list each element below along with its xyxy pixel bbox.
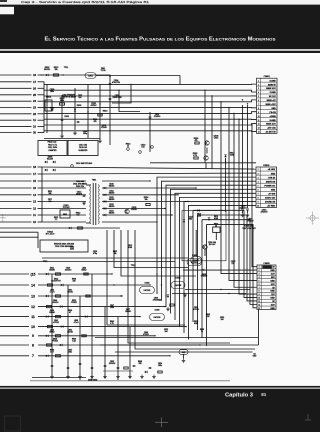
svg-text:470/16: 470/16	[193, 309, 199, 311]
svg-text:7: 7	[259, 287, 260, 289]
svg-text:SB340: SB340	[125, 311, 130, 313]
svg-text:100n: 100n	[158, 365, 162, 367]
svg-text:4148: 4148	[230, 155, 234, 157]
svg-text:+B 140V: +B 140V	[268, 168, 276, 171]
svg-text:+9V SW: +9V SW	[268, 194, 275, 196]
svg-text:222: 222	[231, 263, 234, 265]
svg-text:SB340: SB340	[49, 270, 54, 272]
svg-text:104: 104	[141, 147, 144, 149]
svg-text:MAIN +12V: MAIN +12V	[266, 103, 277, 106]
svg-text:4: 4	[258, 181, 259, 183]
svg-text:9: 9	[258, 112, 259, 114]
svg-text:CN801: CN801	[264, 76, 271, 78]
svg-text:12: 12	[258, 304, 260, 306]
svg-text:BEAD: BEAD	[82, 269, 88, 272]
svg-text:13: 13	[258, 128, 260, 130]
svg-text:26: 26	[33, 86, 37, 90]
svg-text:BA159: BA159	[47, 158, 53, 161]
svg-text:KA7812: KA7812	[191, 261, 198, 264]
svg-text:KA7805: KA7805	[144, 289, 151, 292]
svg-text:470/16V: 470/16V	[246, 221, 254, 223]
svg-text:100n: 100n	[50, 91, 54, 93]
svg-text:1: 1	[258, 80, 259, 82]
svg-text:100: 100	[73, 281, 76, 283]
svg-text:BLEEDER: BLEEDER	[79, 150, 88, 152]
svg-text:220k: 220k	[70, 248, 74, 250]
svg-text:6.8: 6.8	[77, 215, 80, 217]
svg-text:TH801: TH801	[46, 97, 52, 99]
svg-text:CN803: CN803	[263, 165, 270, 167]
svg-text:17: 17	[33, 172, 37, 176]
svg-text:(15: (15	[31, 272, 36, 276]
svg-text:+5V REG: +5V REG	[267, 206, 276, 208]
svg-text:/16V LOW ESR: /16V LOW ESR	[242, 228, 256, 230]
svg-text:14: 14	[33, 193, 37, 197]
svg-text:C816 SMOOTHING: C816 SMOOTHING	[76, 163, 93, 165]
svg-text:1000/10: 1000/10	[65, 270, 72, 272]
svg-text:3842: 3842	[63, 214, 67, 216]
svg-text:C813 102: C813 102	[79, 145, 87, 147]
svg-text:7: 7	[258, 104, 259, 106]
svg-text:7: 7	[32, 354, 34, 358]
svg-text:3: 3	[259, 274, 260, 276]
svg-text:GND: GND	[271, 108, 276, 110]
svg-text:12: 12	[258, 124, 260, 126]
svg-text:10: 10	[258, 298, 260, 300]
svg-text:SOUND EN: SOUND EN	[265, 202, 276, 204]
svg-text:D806: D806	[77, 105, 82, 107]
svg-text:MAIN 5V: MAIN 5V	[268, 83, 277, 86]
svg-text:DAMPER: DAMPER	[48, 149, 57, 152]
svg-text:1kV 1kV: 1kV 1kV	[209, 244, 216, 246]
svg-text:1: 1	[258, 169, 259, 171]
svg-text:3: 3	[258, 88, 259, 90]
svg-text:18: 18	[33, 165, 37, 169]
svg-text:DRIVE ON: DRIVE ON	[266, 181, 276, 183]
svg-text:GND: GND	[270, 280, 275, 282]
svg-text:PS-ON: PS-ON	[270, 112, 277, 114]
svg-text:12: 12	[33, 207, 37, 211]
svg-text:23: 23	[33, 106, 37, 110]
svg-text:330: 330	[139, 363, 142, 365]
svg-text:223/1kV: 223/1kV	[240, 208, 248, 210]
svg-text:10: 10	[33, 220, 37, 224]
svg-text:BA159: BA159	[44, 68, 50, 71]
svg-text:R823 22k: R823 22k	[76, 186, 84, 188]
svg-text:11: 11	[33, 118, 36, 122]
svg-text:47k: 47k	[94, 121, 97, 123]
svg-text:3.3V: 3.3V	[271, 284, 276, 286]
svg-text:472/400: 472/400	[154, 116, 161, 118]
svg-text:2: 2	[258, 84, 259, 86]
svg-text:0.22: 0.22	[72, 341, 76, 343]
svg-text:MAIN 3.3V: MAIN 3.3V	[266, 87, 276, 90]
svg-text:MAIN +5V: MAIN +5V	[267, 99, 277, 102]
svg-text:10: 10	[258, 116, 260, 118]
svg-text:IC802: IC802	[145, 283, 150, 285]
svg-text:1k: 1k	[127, 146, 129, 148]
svg-text:470/16: 470/16	[53, 322, 59, 324]
svg-text:474/275V: 474/275V	[112, 82, 121, 84]
svg-text:10: 10	[257, 206, 259, 208]
svg-text:Cap 3 - Servicio a Fuentes.qx: Cap 3 - Servicio a Fuentes.qxd 8/2/11 5:…	[21, 0, 150, 4]
svg-text:560k: 560k	[60, 100, 64, 102]
svg-text:9: 9	[259, 294, 260, 296]
svg-text:IC803: IC803	[176, 278, 181, 280]
svg-text:56k: 56k	[49, 193, 52, 195]
svg-text:9: 9	[258, 202, 259, 204]
svg-text:1: 1	[259, 267, 260, 269]
svg-text:22: 22	[33, 112, 37, 116]
svg-text:684: 684	[189, 218, 192, 220]
svg-text:R812 0.22: R812 0.22	[48, 142, 57, 144]
svg-text:HTR 5V: HTR 5V	[268, 177, 276, 179]
svg-text:AC DET 5V: AC DET 5V	[266, 131, 277, 134]
svg-text:24: 24	[33, 99, 37, 103]
svg-text:220: 220	[207, 316, 210, 318]
svg-text:8: 8	[258, 198, 259, 200]
svg-text:1000/10: 1000/10	[52, 302, 59, 304]
svg-text:BRIDGE D801 GBU408: BRIDGE D801 GBU408	[54, 244, 74, 246]
svg-text:GND: GND	[271, 173, 276, 175]
svg-text:13: 13	[33, 200, 37, 204]
svg-text:1k: 1k	[201, 331, 203, 333]
svg-text:2: 2	[259, 270, 260, 272]
svg-text:16: 16	[33, 73, 37, 77]
svg-text:D830 GND: D830 GND	[88, 380, 98, 382]
svg-text:11: 11	[33, 213, 36, 217]
svg-text:KIA78R: KIA78R	[175, 284, 182, 287]
svg-text:5: 5	[258, 185, 259, 187]
svg-text:TP21: TP21	[64, 67, 69, 69]
svg-text:11: 11	[31, 315, 35, 319]
svg-text:KA7809: KA7809	[154, 316, 161, 319]
svg-text:SB360: SB360	[109, 199, 114, 201]
svg-text:SCHOTTKY: SCHOTTKY	[51, 281, 62, 283]
svg-text:C808: C808	[64, 116, 69, 118]
svg-text:3.3V: 3.3V	[271, 274, 276, 276]
svg-text:IC805: IC805	[192, 255, 197, 257]
svg-text:4: 4	[259, 277, 260, 279]
svg-text:81: 81	[261, 392, 267, 397]
svg-text:470p: 470p	[93, 253, 97, 255]
svg-text:6: 6	[258, 189, 259, 191]
svg-text:10n: 10n	[49, 201, 52, 203]
svg-text:470/16V: 470/16V	[260, 212, 268, 214]
svg-text:-12V 0.8A: -12V 0.8A	[267, 127, 276, 130]
svg-text:47/50V: 47/50V	[143, 334, 149, 336]
svg-text:GND: GND	[270, 291, 275, 293]
svg-text:11: 11	[258, 120, 260, 122]
svg-text:R817 4.7k: R817 4.7k	[48, 145, 57, 147]
svg-text:NTC 5D-9: NTC 5D-9	[46, 234, 55, 236]
svg-text:C945: C945	[214, 138, 219, 140]
svg-text:14: 14	[31, 283, 35, 287]
svg-text:4148: 4148	[214, 218, 218, 220]
svg-text:8: 8	[259, 291, 260, 293]
svg-text:100p: 100p	[83, 133, 87, 135]
svg-text:10/50V: 10/50V	[76, 194, 83, 196]
svg-text:MAIN 3.3V: MAIN 3.3V	[266, 123, 276, 126]
svg-text:GND: GND	[270, 298, 275, 300]
svg-text:SB360: SB360	[109, 192, 114, 194]
svg-text:SB360: SB360	[109, 206, 114, 208]
svg-text:AUDIO 12V: AUDIO 12V	[265, 197, 276, 200]
svg-text:15: 15	[33, 179, 37, 183]
svg-text:10k: 10k	[114, 253, 117, 255]
svg-text:4148: 4148	[197, 215, 201, 217]
svg-text:30: 30	[33, 131, 37, 135]
svg-text:9: 9	[32, 334, 34, 338]
svg-text:TOP247: TOP247	[62, 207, 69, 209]
svg-text:4148: 4148	[128, 247, 132, 249]
svg-text:12: 12	[31, 305, 35, 309]
svg-text:GND: GND	[270, 270, 275, 272]
svg-text:IC804: IC804	[155, 310, 160, 312]
svg-text:TP23: TP23	[131, 265, 136, 267]
svg-text:3: 3	[258, 177, 259, 179]
svg-text:13: 13	[31, 294, 35, 298]
svg-text:104: 104	[221, 319, 224, 321]
svg-text:470/16V: 470/16V	[153, 299, 160, 301]
svg-text:C811 250V: C811 250V	[48, 147, 58, 149]
svg-text:GREEN: GREEN	[201, 276, 208, 278]
svg-text:4148: 4148	[194, 323, 198, 325]
svg-text:5: 5	[259, 280, 260, 282]
svg-text:SB360: SB360	[109, 213, 114, 215]
svg-text:17: 17	[33, 80, 37, 84]
svg-text:FR153: FR153	[52, 341, 57, 343]
svg-text:7: 7	[258, 194, 259, 196]
svg-text:10: 10	[33, 125, 37, 129]
svg-text:5: 5	[258, 96, 259, 98]
svg-text:GND: GND	[270, 308, 275, 310]
svg-text:S.GND: S.GND	[270, 120, 277, 122]
svg-text:S.GND: S.GND	[270, 80, 277, 82]
svg-text:100n: 100n	[110, 307, 114, 309]
svg-text:2n2: 2n2	[79, 97, 82, 99]
svg-text:2.2: 2.2	[55, 219, 58, 221]
svg-text:FERRITE BEAD: FERRITE BEAD	[62, 96, 76, 99]
svg-text:6: 6	[259, 284, 260, 286]
svg-text:CN805: CN805	[263, 263, 270, 265]
svg-text:10k: 10k	[144, 199, 147, 201]
svg-text:16: 16	[33, 186, 37, 190]
svg-text:SB360: SB360	[109, 186, 114, 188]
svg-text:104: 104	[165, 331, 168, 333]
svg-text:1000/16: 1000/16	[109, 363, 116, 365]
svg-text:A1015: A1015	[131, 208, 136, 211]
svg-text:10k: 10k	[54, 69, 57, 71]
svg-text:2200P/250: 2200P/250	[112, 97, 121, 99]
svg-text:T2.5A: T2.5A	[100, 69, 106, 72]
svg-text:4.7k: 4.7k	[110, 323, 113, 325]
svg-text:El Servicio Técnico a las Fuen: El Servicio Técnico a las Fuentes Pulsad…	[45, 37, 276, 43]
svg-text:Capítulo 3: Capítulo 3	[225, 393, 254, 399]
svg-text:47/50V: 47/50V	[91, 105, 98, 107]
svg-text:+5VSB: +5VSB	[269, 116, 276, 118]
svg-text:3.3V: 3.3V	[271, 304, 276, 306]
svg-text:1k: 1k	[215, 225, 217, 227]
svg-text:6: 6	[258, 100, 259, 102]
svg-text:8: 8	[258, 108, 259, 110]
svg-text:R819 1M: R819 1M	[79, 147, 87, 149]
svg-text:P.GND: P.GND	[270, 92, 276, 94]
svg-text:100n: 100n	[68, 351, 72, 353]
svg-text:10: 10	[31, 325, 35, 329]
svg-text:47: 47	[69, 312, 71, 314]
svg-text:25: 25	[33, 93, 37, 97]
svg-text:14: 14	[258, 132, 260, 134]
svg-text:2: 2	[258, 173, 259, 175]
svg-text:11: 11	[258, 301, 260, 303]
svg-text:NC 12V: NC 12V	[269, 96, 276, 98]
svg-text:K2545: K2545	[101, 127, 106, 129]
svg-text:8: 8	[32, 343, 34, 347]
svg-text:POWER GO: POWER GO	[264, 185, 275, 187]
svg-text:GND: GND	[271, 189, 276, 191]
svg-text:FR302: FR302	[71, 302, 76, 304]
svg-text:4: 4	[258, 92, 259, 94]
svg-text:4.7uH: 4.7uH	[74, 322, 79, 324]
svg-text:R810: R810	[103, 111, 108, 113]
